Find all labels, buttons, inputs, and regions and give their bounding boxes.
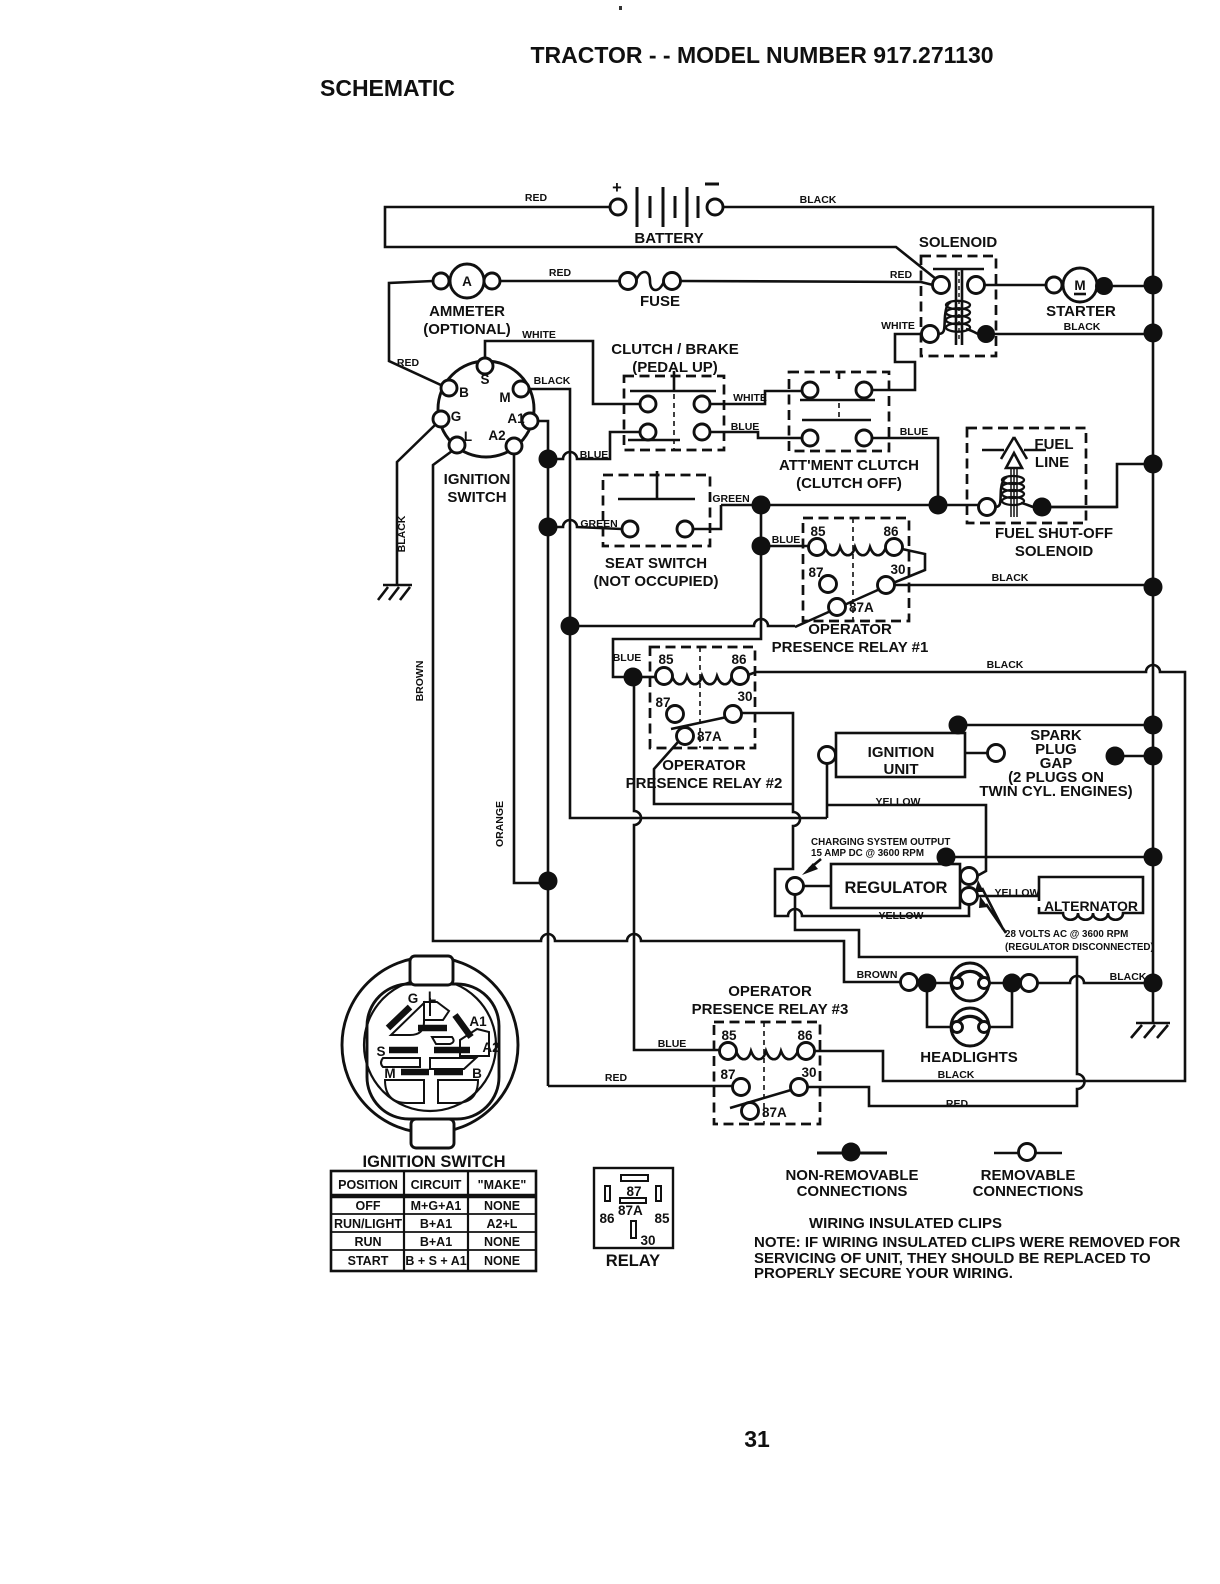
svg-text:30: 30 <box>640 1233 655 1248</box>
svg-text:(NOT OCCUPIED): (NOT OCCUPIED) <box>594 573 719 590</box>
svg-text:BLACK: BLACK <box>987 659 1024 671</box>
svg-text:IGNITION: IGNITION <box>444 471 511 488</box>
svg-text:NON-REMOVABLE: NON-REMOVABLE <box>785 1167 918 1184</box>
svg-text:PRESENCE RELAY #1: PRESENCE RELAY #1 <box>772 639 929 656</box>
svg-text:OPERATOR: OPERATOR <box>728 983 812 1000</box>
svg-text:LINE: LINE <box>1035 454 1069 471</box>
svg-text:M: M <box>1074 278 1085 293</box>
svg-text:RED: RED <box>890 269 913 281</box>
svg-text:28 VOLTS AC @ 3600 RPM: 28 VOLTS AC @ 3600 RPM <box>1005 929 1128 940</box>
svg-text:BLACK: BLACK <box>800 194 837 206</box>
svg-text:GREEN: GREEN <box>580 518 617 530</box>
svg-text:87: 87 <box>626 1184 641 1199</box>
svg-text:OPERATOR: OPERATOR <box>808 621 892 638</box>
svg-text:BLACK: BLACK <box>992 572 1029 584</box>
svg-text:(CLUTCH OFF): (CLUTCH OFF) <box>796 475 902 492</box>
svg-text:RED: RED <box>605 1072 628 1084</box>
svg-text:CIRCUIT: CIRCUIT <box>411 1178 462 1192</box>
svg-text:RUN/LIGHT: RUN/LIGHT <box>334 1217 402 1231</box>
svg-text:85: 85 <box>658 652 674 667</box>
svg-text:M: M <box>499 390 510 405</box>
svg-text:BROWN: BROWN <box>857 969 898 981</box>
svg-text:86: 86 <box>883 524 899 539</box>
svg-text:B: B <box>459 385 469 400</box>
svg-text:NONE: NONE <box>484 1199 520 1213</box>
svg-text:POSITION: POSITION <box>338 1178 398 1192</box>
svg-text:BLUE: BLUE <box>900 426 929 438</box>
svg-text:87: 87 <box>720 1067 735 1082</box>
svg-text:CLUTCH / BRAKE: CLUTCH / BRAKE <box>611 341 739 358</box>
svg-text:SOLENOID: SOLENOID <box>919 234 998 251</box>
svg-text:BLACK: BLACK <box>938 1069 975 1081</box>
svg-text:ORANGE: ORANGE <box>494 801 506 847</box>
svg-text:30: 30 <box>890 562 905 577</box>
svg-text:15 AMP DC @ 3600 RPM: 15 AMP DC @ 3600 RPM <box>811 848 924 859</box>
svg-text:BLACK: BLACK <box>534 375 571 387</box>
svg-text:87A: 87A <box>618 1203 643 1218</box>
svg-text:G: G <box>451 409 462 424</box>
svg-text:85: 85 <box>654 1211 670 1226</box>
svg-text:PRESENCE RELAY #3: PRESENCE RELAY #3 <box>692 1001 849 1018</box>
svg-text:BLUE: BLUE <box>772 534 801 546</box>
svg-text:HEADLIGHTS: HEADLIGHTS <box>920 1049 1018 1066</box>
svg-text:BLUE: BLUE <box>658 1038 687 1050</box>
svg-text:WHITE: WHITE <box>881 320 915 332</box>
svg-text:A: A <box>462 274 472 289</box>
svg-text:(PEDAL UP): (PEDAL UP) <box>632 359 718 376</box>
svg-text:BLACK: BLACK <box>1064 321 1101 333</box>
svg-text:TRACTOR - - MODEL NUMBER 917.2: TRACTOR - - MODEL NUMBER 917.271130 <box>530 42 993 68</box>
svg-text:YELLOW: YELLOW <box>995 887 1040 899</box>
svg-text:87A: 87A <box>697 729 722 744</box>
svg-text:86: 86 <box>797 1028 813 1043</box>
svg-text:UNIT: UNIT <box>884 761 919 778</box>
svg-text:85: 85 <box>721 1028 737 1043</box>
svg-text:87A: 87A <box>849 600 874 615</box>
svg-text:(OPTIONAL): (OPTIONAL) <box>423 321 511 338</box>
svg-text:TWIN CYL. ENGINES): TWIN CYL. ENGINES) <box>979 783 1132 800</box>
svg-text:RED: RED <box>397 357 420 369</box>
svg-text:B+A1: B+A1 <box>420 1217 452 1231</box>
svg-text:REGULATOR: REGULATOR <box>845 879 948 897</box>
svg-text:(REGULATOR DISCONNECTED): (REGULATOR DISCONNECTED) <box>1005 942 1154 953</box>
svg-text:BATTERY: BATTERY <box>634 230 703 247</box>
svg-text:CONNECTIONS: CONNECTIONS <box>973 1183 1084 1200</box>
svg-text:"MAKE": "MAKE" <box>478 1178 527 1192</box>
svg-text:NONE: NONE <box>484 1254 520 1268</box>
svg-text:85: 85 <box>810 524 826 539</box>
svg-text:PRESENCE RELAY #2: PRESENCE RELAY #2 <box>626 775 783 792</box>
svg-text:AMMETER: AMMETER <box>429 303 505 320</box>
svg-text:RED: RED <box>946 1098 969 1110</box>
svg-text:WHITE: WHITE <box>522 329 556 341</box>
svg-text:87: 87 <box>655 695 670 710</box>
svg-text:BLUE: BLUE <box>613 652 642 664</box>
svg-text:B+A1: B+A1 <box>420 1235 452 1249</box>
svg-text:M+G+A1: M+G+A1 <box>411 1199 462 1213</box>
svg-text:YELLOW: YELLOW <box>879 910 924 922</box>
svg-text:IGNITION: IGNITION <box>868 744 935 761</box>
svg-text:WIRING INSULATED CLIPS: WIRING INSULATED CLIPS <box>809 1215 1002 1232</box>
svg-text:START: START <box>348 1254 389 1268</box>
svg-text:A1: A1 <box>507 411 525 426</box>
svg-text:SEAT SWITCH: SEAT SWITCH <box>605 555 707 572</box>
svg-text:G: G <box>408 991 419 1006</box>
svg-text:A2: A2 <box>482 1040 499 1055</box>
svg-text:RELAY: RELAY <box>606 1252 660 1270</box>
svg-text:CHARGING SYSTEM OUTPUT: CHARGING SYSTEM OUTPUT <box>811 837 950 848</box>
svg-text:REMOVABLE: REMOVABLE <box>981 1167 1076 1184</box>
svg-text:NONE: NONE <box>484 1235 520 1249</box>
svg-text:FUEL SHUT-OFF: FUEL SHUT-OFF <box>995 525 1113 542</box>
svg-text:STARTER: STARTER <box>1046 303 1116 320</box>
svg-text:BLUE: BLUE <box>580 449 609 461</box>
svg-text:BROWN: BROWN <box>414 661 426 702</box>
svg-text:RUN: RUN <box>354 1235 381 1249</box>
svg-text:CONNECTIONS: CONNECTIONS <box>797 1183 908 1200</box>
svg-text:FUEL: FUEL <box>1034 436 1073 453</box>
svg-text:SWITCH: SWITCH <box>447 489 506 506</box>
svg-text:30: 30 <box>801 1065 816 1080</box>
svg-text:YELLOW: YELLOW <box>876 796 921 808</box>
svg-text:86: 86 <box>599 1211 615 1226</box>
svg-text:L: L <box>428 989 436 1004</box>
svg-text:86: 86 <box>731 652 747 667</box>
svg-text:87: 87 <box>808 565 823 580</box>
svg-text:RED: RED <box>525 192 548 204</box>
svg-text:31: 31 <box>744 1426 770 1452</box>
svg-text:IGNITION SWITCH: IGNITION SWITCH <box>363 1153 506 1171</box>
svg-text:87A: 87A <box>762 1105 787 1120</box>
svg-text:S: S <box>480 372 489 387</box>
svg-text:OFF: OFF <box>356 1199 381 1213</box>
svg-text:BLUE: BLUE <box>731 421 760 433</box>
svg-text:B + S + A1: B + S + A1 <box>405 1254 466 1268</box>
svg-text:A2+L: A2+L <box>487 1217 518 1231</box>
svg-text:BLACK: BLACK <box>1110 971 1147 983</box>
svg-text:RED: RED <box>549 267 572 279</box>
svg-text:ATT'MENT CLUTCH: ATT'MENT CLUTCH <box>779 457 919 474</box>
svg-text:PROPERLY SECURE YOUR WIRING.: PROPERLY SECURE YOUR WIRING. <box>754 1265 1013 1282</box>
svg-text:GREEN: GREEN <box>712 493 749 505</box>
svg-text:OPERATOR: OPERATOR <box>662 757 746 774</box>
svg-text:WHITE: WHITE <box>733 392 767 404</box>
svg-text:A1: A1 <box>469 1014 487 1029</box>
svg-text:L: L <box>464 429 472 444</box>
svg-text:NOTE: IF WIRING INSULATED CLIP: NOTE: IF WIRING INSULATED CLIPS WERE REM… <box>754 1234 1181 1251</box>
svg-text:S: S <box>376 1044 385 1059</box>
svg-text:SCHEMATIC: SCHEMATIC <box>320 75 455 101</box>
svg-text:+: + <box>612 179 622 197</box>
svg-text:FUSE: FUSE <box>640 293 680 310</box>
svg-text:B: B <box>472 1066 482 1081</box>
svg-text:A2: A2 <box>488 428 505 443</box>
svg-text:SOLENOID: SOLENOID <box>1015 543 1094 560</box>
svg-text:M: M <box>384 1066 395 1081</box>
svg-text:ALTERNATOR: ALTERNATOR <box>1044 898 1138 914</box>
svg-text:BLACK: BLACK <box>396 515 408 552</box>
svg-text:30: 30 <box>737 689 752 704</box>
